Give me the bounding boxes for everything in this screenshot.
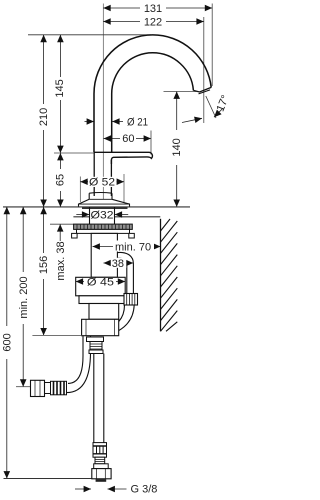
dimension 65 — [55, 153, 67, 207]
svg-text:600: 600 — [1, 333, 13, 351]
svg-text:38: 38 — [112, 258, 124, 270]
dimension min. 70 — [93, 241, 161, 254]
svg-text:Ø 52: Ø 52 — [89, 177, 115, 189]
centerline of faucet — [102, 4, 104, 200]
spout outer contour — [94, 35, 211, 152]
svg-text:140: 140 — [171, 138, 183, 156]
17° angle detail — [182, 93, 232, 122]
lower housing wide box — [82, 319, 119, 335]
spout tip cut — [193, 87, 211, 92]
dimension 38 — [104, 258, 134, 270]
shank through deck — [89, 207, 91, 224]
svg-text:min. 70: min. 70 — [115, 242, 151, 254]
svg-text:Ø 21: Ø 21 — [127, 116, 148, 128]
dimension Ø45 — [76, 277, 126, 289]
base shadow under rim — [82, 207, 128, 209]
left connector nut G3/8 — [31, 380, 45, 396]
svg-text:Ø 45: Ø 45 — [87, 277, 114, 289]
mounting flange — [72, 224, 135, 238]
bottom nut G3/8 — [92, 464, 111, 482]
main hose down — [93, 354, 95, 444]
dimension 122 — [103, 17, 204, 29]
base upper cylinder — [89, 193, 112, 199]
svg-text:min. 200: min. 200 — [18, 276, 30, 318]
dimension 145 — [54, 35, 66, 153]
deck bottom line — [73, 216, 89, 218]
svg-text:max. 38: max. 38 — [55, 241, 67, 280]
hose elbow to the right — [117, 252, 133, 293]
dimension Ø32 — [76, 209, 128, 221]
svg-text:145: 145 — [54, 79, 66, 97]
svg-text:131: 131 — [144, 3, 162, 15]
extension line at lever top — [54, 152, 94, 154]
dimension 140 — [164, 92, 197, 207]
dimension Ø21 — [85, 116, 149, 128]
svg-text:65: 65 — [55, 174, 67, 186]
dimension max. 38 — [50, 224, 74, 280]
main hose nut under box — [87, 337, 104, 354]
lever handle — [94, 152, 152, 164]
left connector crimp sleeve — [51, 381, 67, 395]
dimension min. 200 — [16, 207, 31, 387]
top reference line at spout top — [28, 34, 151, 36]
spout tip aerator lip — [199, 90, 211, 94]
dimension 210 — [38, 35, 50, 207]
dimension 131 — [103, 3, 212, 15]
svg-text:Ø32: Ø32 — [91, 209, 114, 221]
knurled fitting right — [124, 294, 138, 306]
svg-text:60: 60 — [122, 133, 134, 145]
left hose curving to left connector — [68, 336, 83, 384]
bottom crimp sleeve — [93, 443, 107, 464]
deck top line — [3, 206, 190, 208]
dimension 60 — [104, 131, 151, 155]
body column — [93, 152, 95, 196]
left connector neck — [45, 383, 51, 394]
wall section with hatching — [161, 219, 178, 331]
horizontal connection bar — [79, 296, 128, 304]
lower housing upper box — [89, 304, 119, 320]
spout inner contour — [112, 53, 194, 153]
base flare — [79, 199, 130, 207]
svg-text:156: 156 — [38, 256, 50, 274]
dimension G 3/8 — [75, 483, 157, 495]
svg-text:210: 210 — [38, 108, 50, 126]
dimension 600 — [1, 207, 13, 479]
valve body below deck — [91, 233, 117, 277]
svg-text:122: 122 — [144, 17, 162, 29]
hose curve from fitting into lower box — [119, 305, 134, 331]
svg-text:G 3/8: G 3/8 — [131, 483, 158, 495]
dimension Ø52 — [80, 174, 124, 202]
dimension 156 — [32, 207, 83, 336]
baseline at hose end — [4, 478, 92, 480]
extension line outlet axis x=203.8 — [203, 17, 205, 123]
extension line spout outer tip x=212.2 — [211, 4, 213, 87]
escutcheon cup Ø45 — [76, 277, 126, 296]
